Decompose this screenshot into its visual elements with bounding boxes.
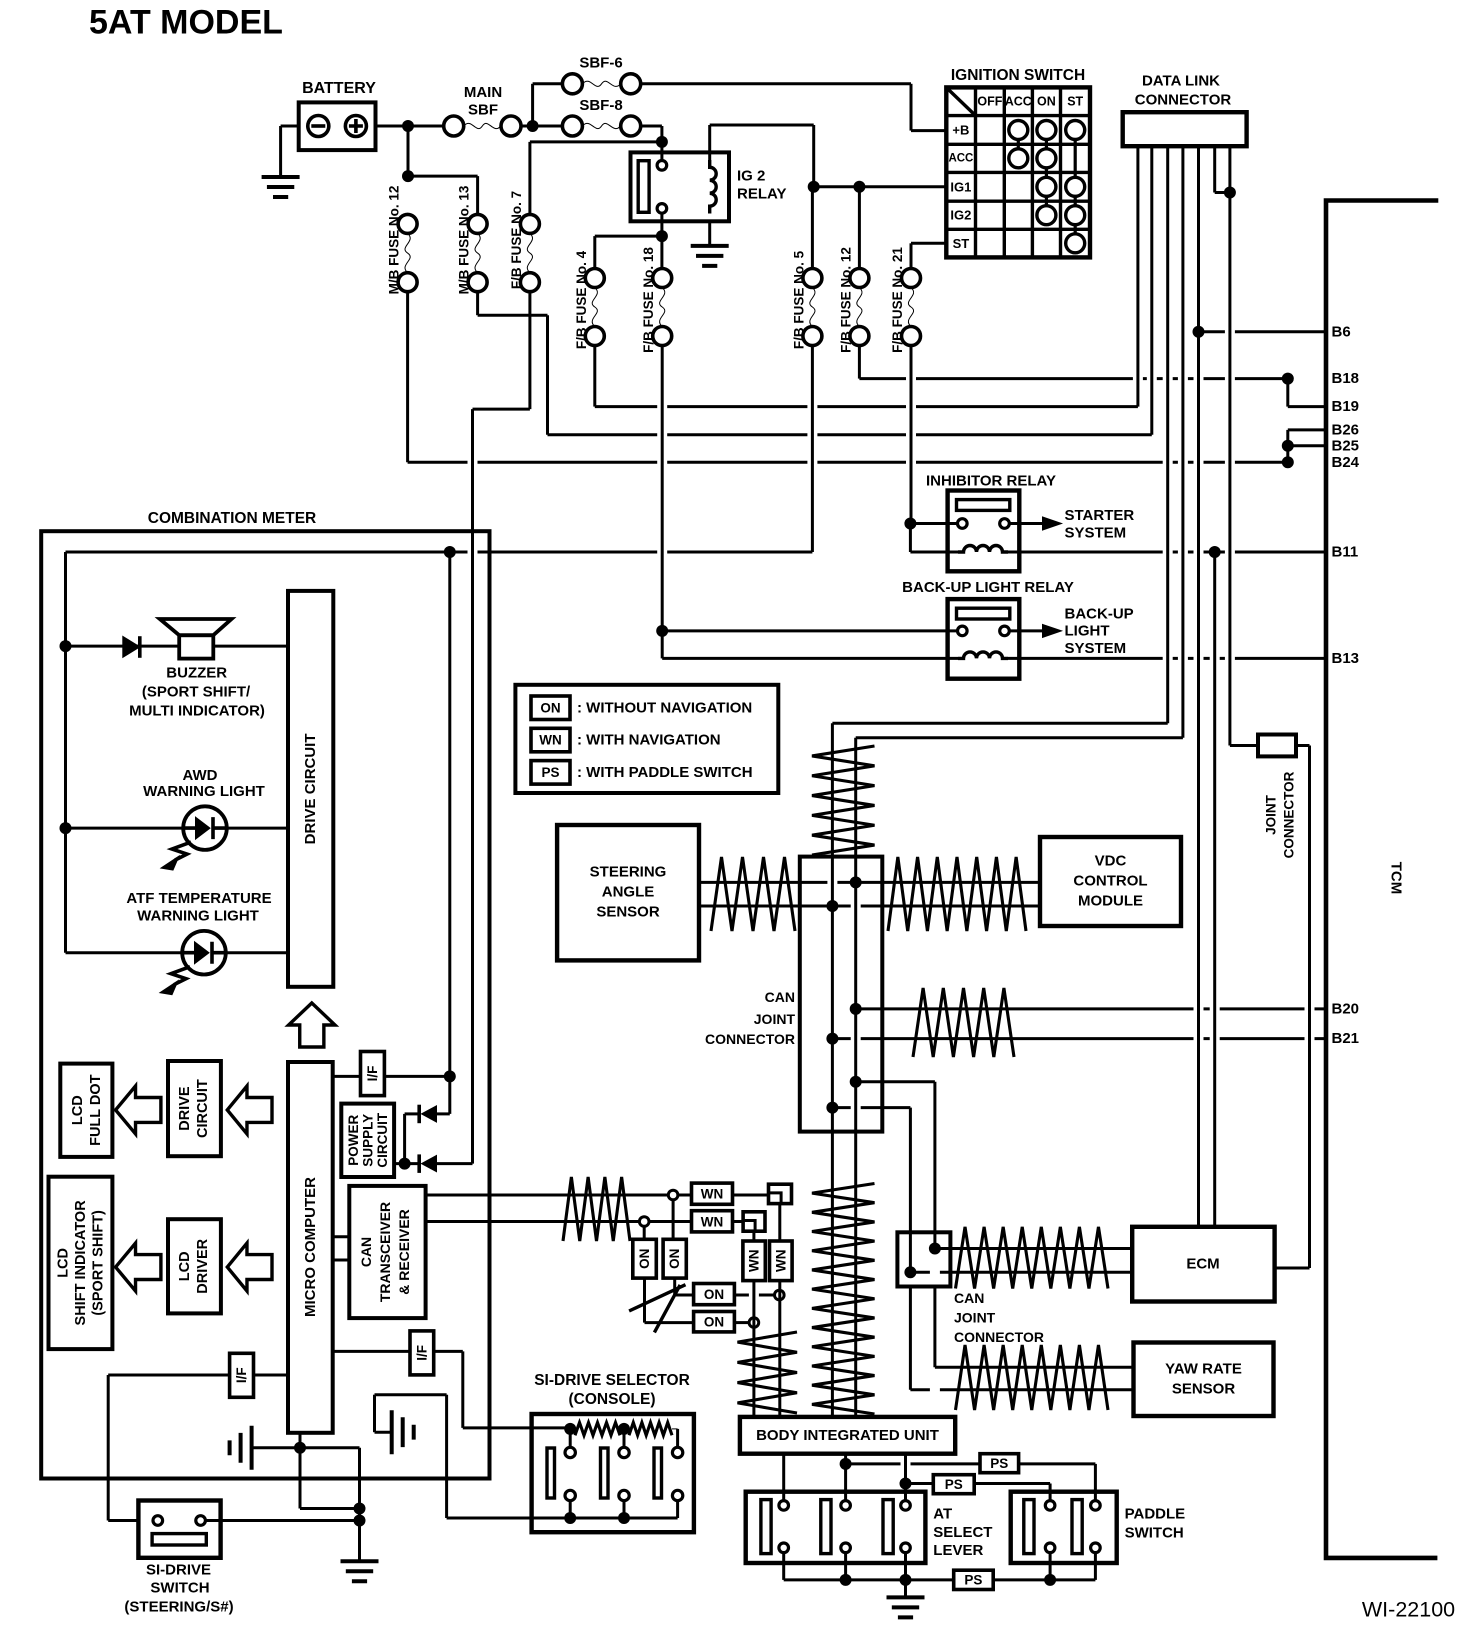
wires paddle to rail [1049, 1553, 1052, 1580]
wire circle L down to ON [643, 1226, 646, 1239]
svg-text:SWITCH: SWITCH [150, 1580, 209, 1597]
ground SI-drive selector [392, 1410, 414, 1454]
wire branch to M/B fuse No.13 [408, 175, 478, 178]
svg-text:IG1: IG1 [950, 179, 971, 194]
wire M/B fuse No.12 to TCM B24 [406, 292, 409, 463]
node rail 845 [840, 1574, 852, 1586]
circuit POWER SUPPLY CIRCUIT [341, 1104, 394, 1177]
option ON vertical left [633, 1239, 657, 1278]
node selector bottom 2 [618, 1512, 630, 1524]
node CAN H steering junction [850, 876, 862, 888]
wire B11 node down to ECM [1213, 552, 1216, 1227]
interface I/F top [361, 1052, 385, 1096]
buzzer BZ1 [179, 635, 213, 658]
wire fuse18 node [656, 625, 668, 637]
wire TCM B6 [1199, 330, 1327, 333]
svg-text:WN: WN [701, 1187, 724, 1202]
wire DLC pin4 [1181, 146, 1184, 738]
svg-text:SELECT: SELECT [933, 1524, 992, 1541]
wire battery positive bus [376, 125, 444, 128]
svg-text:(SPORT SHIFT/: (SPORT SHIFT/ [142, 684, 251, 701]
svg-text:PS: PS [945, 1477, 963, 1492]
svg-text:IG 2: IG 2 [737, 168, 765, 185]
diode power D2 [422, 1156, 437, 1172]
svg-text:B11: B11 [1332, 544, 1359, 561]
wire AT lever rail to ground [904, 1580, 907, 1598]
module VDC CONTROL MODULE [1040, 837, 1181, 926]
circuit DRIVE CIRCUIT small [168, 1061, 221, 1156]
display LCD SHIFT INDICATOR [49, 1177, 113, 1349]
twisted pair VDC [888, 857, 1026, 931]
wire selector bottom rail [447, 1517, 678, 1520]
wire buzzer branch [66, 645, 289, 648]
wire PS1 to paddle [1019, 1462, 1096, 1465]
svg-text:CONNECTOR: CONNECTOR [954, 1329, 1044, 1345]
wire backup contact to arrow [1009, 629, 1044, 632]
svg-text:ON: ON [704, 1287, 724, 1302]
wire PS line 1 [846, 1462, 980, 1465]
wire selector corner 3 [676, 1429, 679, 1448]
svg-text:F/B FUSE No. 18: F/B FUSE No. 18 [641, 247, 656, 353]
svg-text:JOINT: JOINT [754, 1011, 796, 1027]
connector circle ON4 [749, 1318, 759, 1328]
node SI-drive switch return B [354, 1515, 366, 1527]
fuse F/B FUSE No. 5 [803, 269, 822, 288]
svg-text:FULL DOT: FULL DOT [88, 1074, 104, 1146]
wire fuse No.13 to data link connector pin2 [548, 433, 1152, 436]
twisted pair steering sensor [711, 857, 795, 931]
svg-text:SWITCH: SWITCH [1125, 1525, 1184, 1542]
wire DLC pin4 to CAN bus L [856, 736, 1183, 739]
wire fuse18 to backup coil [661, 631, 664, 659]
svg-text:TCM: TCM [1388, 862, 1405, 895]
wire BIU to AT lever 2 [844, 1454, 847, 1501]
svg-text:LEVER: LEVER [933, 1542, 983, 1559]
connector circle H [668, 1190, 678, 1200]
relay IG2 coil wire to IG1 [708, 125, 711, 160]
wire ground node to SI-drive return [300, 1446, 360, 1449]
svg-text:ON: ON [667, 1249, 682, 1269]
option PS box 2 [933, 1475, 974, 1494]
wire up to SBF-6 [531, 84, 534, 126]
svg-text:B18: B18 [1332, 370, 1360, 387]
svg-text:CONNECTOR: CONNECTOR [1135, 92, 1232, 109]
connector DATA LINK CONNECTOR [1123, 112, 1247, 146]
svg-text:M/B FUSE No. 12: M/B FUSE No. 12 [387, 186, 402, 295]
ignition switch contact connector lines [1018, 140, 1075, 234]
battery B1 [299, 102, 376, 150]
interface I/F left [230, 1353, 254, 1397]
arrow drive circuit up [289, 1003, 335, 1047]
svg-text:MULTI INDICATOR): MULTI INDICATOR) [129, 703, 265, 720]
connector square H [769, 1184, 792, 1203]
svg-text:INHIBITOR RELAY: INHIBITOR RELAY [926, 473, 1056, 490]
node B11 branch to ECM [1209, 546, 1221, 558]
svg-text:WN: WN [773, 1250, 788, 1273]
wire steering sensor CAN H [699, 881, 856, 884]
ground micro computer [230, 1426, 252, 1470]
svg-text:SHIFT INDICATOR: SHIFT INDICATOR [73, 1200, 89, 1326]
svg-text:WN: WN [747, 1250, 762, 1273]
wire IG1 to F/B fuse No.5 [811, 187, 814, 269]
svg-text:B25: B25 [1332, 437, 1360, 454]
circuit DRIVE CIRCUIT [288, 591, 333, 987]
svg-text:MODULE: MODULE [1078, 893, 1143, 910]
wire SBF-8 to IG2 relay [641, 125, 662, 128]
option ON box4 [694, 1312, 735, 1332]
svg-text:CAN: CAN [765, 989, 795, 1005]
wire IG1 row [814, 185, 947, 188]
svg-text:WN: WN [539, 733, 562, 748]
svg-text:WI-22100: WI-22100 [1362, 1598, 1455, 1622]
svg-text:ECM: ECM [1186, 1256, 1219, 1273]
connector circle L [639, 1217, 649, 1227]
svg-text:BUZZER: BUZZER [166, 665, 227, 682]
svg-text:ON: ON [704, 1315, 724, 1330]
wire F/B fuse No.5 down to combination meter rail [811, 346, 814, 553]
twisted pair to yaw rate sensor [956, 1345, 1109, 1410]
svg-text:WN: WN [701, 1214, 724, 1229]
wire circle H down to ON [672, 1200, 675, 1240]
svg-text:SENSOR: SENSOR [596, 904, 660, 921]
svg-text:B26: B26 [1332, 421, 1360, 438]
svg-text:(SPORT SHIFT): (SPORT SHIFT) [91, 1210, 107, 1316]
LED ATF warning light [182, 931, 226, 975]
svg-text:LCD: LCD [56, 1248, 72, 1278]
switch SI-DRIVE SWITCH [138, 1501, 220, 1558]
fuse MAIN SBF [444, 116, 464, 136]
svg-text:ACC: ACC [948, 152, 973, 164]
wire micro to I/F left [254, 1374, 289, 1377]
node B18 junction [1282, 373, 1294, 385]
svg-text:CIRCUIT: CIRCUIT [195, 1079, 211, 1138]
svg-text:JOINT: JOINT [954, 1310, 996, 1326]
svg-text:LCD: LCD [70, 1095, 86, 1125]
connector circle ON3 [775, 1290, 785, 1300]
wire I/F right to SI-drive selector [434, 1350, 463, 1353]
svg-text:SYSTEM: SYSTEM [1065, 525, 1127, 542]
arrow to drive circuit small [227, 1086, 272, 1134]
wire F/B fuse No.7 down to power diode [471, 409, 474, 1164]
svg-text:I/F: I/F [234, 1367, 249, 1383]
ignition switch SW1 table [946, 87, 1090, 257]
node B24 junction [1282, 456, 1294, 468]
svg-text:ST: ST [1067, 95, 1083, 109]
arrow to starter system [1043, 517, 1062, 530]
relay IG 2 RELAY [631, 152, 730, 221]
selector contacts [569, 1429, 572, 1448]
svg-text:BACK-UP LIGHT RELAY: BACK-UP LIGHT RELAY [902, 579, 1074, 596]
svg-text:BACK-UP: BACK-UP [1065, 606, 1134, 623]
svg-text:B6: B6 [1332, 323, 1351, 340]
svg-text:F/B FUSE No. 4: F/B FUSE No. 4 [574, 250, 589, 349]
wire inhibitor coil to TCM B11 [1008, 551, 1326, 554]
arrow to LCD shift indicator [116, 1243, 161, 1291]
svg-text:F/B FUSE No. 5: F/B FUSE No. 5 [791, 250, 806, 349]
wire H to WN box [678, 1194, 692, 1197]
node CAN B21 junction [826, 1033, 838, 1045]
arrow to LCD driver [227, 1243, 272, 1291]
fuse F/B FUSE No. 7 [520, 214, 539, 233]
twisted pair above joint connector [812, 746, 875, 855]
node SBF-8 branch to fuse No.7 [656, 136, 668, 148]
svg-text:DRIVE CIRCUIT: DRIVE CIRCUIT [302, 733, 319, 844]
connector square L [743, 1212, 765, 1231]
unit BODY INTEGRATED UNIT [740, 1417, 955, 1454]
node PS line 1 [840, 1458, 852, 1470]
wire PS2 to paddle [974, 1482, 1050, 1485]
svg-text:ACC: ACC [1005, 95, 1032, 109]
wire steering sensor CAN L [699, 905, 832, 908]
svg-text:OFF: OFF [977, 95, 1002, 109]
wire F/B fuse No.12 to TCM B18 [858, 346, 861, 379]
option WN L [692, 1211, 733, 1232]
svg-text:5AT MODEL: 5AT MODEL [89, 4, 283, 42]
node micro ground junction [294, 1442, 306, 1454]
svg-text:COMBINATION METER: COMBINATION METER [148, 510, 316, 527]
svg-text:STARTER: STARTER [1065, 507, 1135, 524]
wire AWD branch [66, 827, 289, 830]
twisted pair transceiver [563, 1177, 630, 1241]
option PS box 1 [980, 1454, 1019, 1473]
svg-text:: WITHOUT NAVIGATION: : WITHOUT NAVIGATION [577, 699, 752, 716]
svg-text:B21: B21 [1332, 1030, 1360, 1047]
fuse F/B FUSE No. 18 [653, 269, 672, 288]
node rail 905 [900, 1574, 912, 1586]
wire joint conn2 to yaw upper [933, 1287, 936, 1368]
resistor selector R2 [629, 1423, 672, 1436]
svg-text:SBF: SBF [468, 102, 498, 119]
svg-text:& RECEIVER: & RECEIVER [396, 1209, 412, 1295]
wire SBF-6 to ignition +B [641, 82, 911, 85]
wire IG2 relay coil to ground [708, 221, 711, 246]
wire micro to I/F top [333, 1075, 361, 1078]
legend ON [531, 696, 570, 720]
transceiver CAN TRANSCEIVER & RECEIVER [349, 1186, 425, 1318]
svg-text:DATA LINK: DATA LINK [1142, 73, 1220, 90]
node CAN H branch [850, 1076, 862, 1088]
ground AT select lever [887, 1597, 925, 1617]
wire VDC CAN H [856, 881, 1040, 884]
wire CAN to TCM B20 [856, 1007, 1326, 1010]
wire DLC pin2 [1150, 146, 1153, 435]
wire joint conn2 to yaw lower [909, 1287, 912, 1390]
option WN vertical right [770, 1241, 793, 1281]
svg-text:CAN: CAN [358, 1237, 374, 1267]
node selector top 2 [618, 1423, 630, 1435]
wire joint connector to ECM [1296, 744, 1310, 747]
svg-text:F/B FUSE No. 12: F/B FUSE No. 12 [838, 247, 853, 353]
svg-text:F/B FUSE No. 7: F/B FUSE No. 7 [509, 191, 524, 289]
wire M/B fuse No.13 jog [476, 292, 479, 316]
fuse F/B FUSE No. 12 [850, 269, 869, 288]
node CAN L branch [826, 1102, 838, 1114]
wire micro to CAN transceiver lower [333, 1259, 350, 1262]
svg-text:SENSOR: SENSOR [1172, 1381, 1236, 1398]
arrow to back-up light system [1043, 624, 1062, 637]
wire bottom rail [784, 1578, 954, 1581]
svg-text:: WITH NAVIGATION: : WITH NAVIGATION [577, 732, 721, 749]
node CAN B20 junction [850, 1003, 862, 1015]
wire DLC pin1 [1136, 146, 1139, 406]
circuit LCD DRIVER [168, 1219, 221, 1313]
svg-text:VDC: VDC [1095, 853, 1127, 870]
arrow to LCD full dot [116, 1086, 161, 1134]
wire DLC pin6 merge [1213, 146, 1216, 192]
svg-text:M/B FUSE No. 13: M/B FUSE No. 13 [457, 185, 472, 294]
wire CAN H branch to joint conn 2 [856, 1080, 935, 1083]
fuse F/B FUSE No. 21 [902, 269, 921, 288]
sensor YAW RATE SENSOR [1134, 1343, 1274, 1417]
svg-text:BODY INTEGRATED UNIT: BODY INTEGRATED UNIT [756, 1427, 939, 1444]
wire DLC pin5 [1197, 146, 1200, 1227]
fuse SBF-6 [562, 74, 582, 94]
wire node down to inhibitor coil [909, 524, 912, 553]
svg-text:WARNING LIGHT: WARNING LIGHT [143, 783, 265, 800]
svg-text:BATTERY: BATTERY [302, 80, 376, 97]
svg-text:CONNECTOR: CONNECTOR [1282, 771, 1297, 858]
svg-text:STEERING: STEERING [590, 864, 667, 881]
svg-text:SYSTEM: SYSTEM [1065, 640, 1127, 657]
wire DLC pin3 to CAN bus H [832, 722, 1167, 725]
wire rail junction down [448, 552, 451, 1114]
svg-text:ATF TEMPERATURE: ATF TEMPERATURE [126, 890, 271, 907]
wire joint conn2 to ECM lower [910, 1271, 1132, 1274]
wire BIU to AT lever 1 [782, 1454, 785, 1501]
svg-text:I/F: I/F [414, 1345, 429, 1361]
wire SI-drive switch to return [205, 1519, 359, 1522]
connector CAN JOINT CONNECTOR 2 [897, 1232, 950, 1286]
fuse F/B FUSE No. 4 [585, 269, 604, 288]
svg-text:LCD: LCD [177, 1251, 193, 1281]
svg-text:POWER: POWER [346, 1115, 361, 1166]
svg-text:CIRCUIT: CIRCUIT [375, 1112, 390, 1167]
twisted pair CAN to BIU [812, 1184, 875, 1415]
node B6 junction [1193, 326, 1205, 338]
svg-text:ON: ON [637, 1249, 652, 1269]
legend WN [531, 728, 570, 752]
wire PS3 to paddle rail [993, 1578, 1095, 1581]
svg-text:SUPPLY: SUPPLY [361, 1114, 376, 1167]
sensor STEERING ANGLE SENSOR [557, 825, 699, 960]
wire ON right to ON box3 [673, 1278, 676, 1295]
resistor selector R1 [575, 1423, 620, 1436]
svg-text:WARNING LIGHT: WARNING LIGHT [137, 908, 259, 925]
module TCM box [1326, 201, 1438, 1558]
node PS line 2 [900, 1478, 912, 1490]
wire inhibitor contact to starter arrow [1009, 522, 1044, 525]
wire I/F left to SI-drive switch [108, 1374, 229, 1377]
node IG1 fuse junction [853, 181, 865, 193]
node DLC pin6-7 junction [1224, 187, 1236, 199]
wires AT lever to bottom rail [782, 1553, 785, 1580]
svg-text:SBF-8: SBF-8 [579, 97, 622, 114]
wire CAN transceiver H line [426, 1194, 669, 1197]
connector CAN JOINT CONNECTOR 1 [800, 857, 883, 1132]
wire CAN L branch to joint conn 2 [832, 1106, 910, 1109]
svg-text:ON: ON [1037, 95, 1056, 109]
wire CAN to TCM B21 [832, 1037, 1326, 1040]
wire F/B fuse No.4 to data link connector pin1 [593, 346, 596, 407]
svg-text:CONNECTOR: CONNECTOR [705, 1031, 795, 1047]
svg-text:PS: PS [541, 765, 559, 780]
svg-text:DRIVE: DRIVE [177, 1086, 193, 1131]
svg-text:MAIN: MAIN [464, 84, 502, 101]
node CAN L steering junction [826, 900, 838, 912]
wire PS line 2 [906, 1482, 934, 1485]
wire stub H to body integrated unit [778, 1281, 781, 1417]
svg-text:RELAY: RELAY [737, 186, 786, 203]
svg-text:B24: B24 [1332, 454, 1360, 471]
svg-text:B13: B13 [1332, 650, 1360, 667]
svg-text:CONTROL: CONTROL [1073, 873, 1147, 890]
svg-text:+B: +B [952, 123, 969, 138]
svg-text:DRIVER: DRIVER [195, 1238, 211, 1293]
svg-text:JOINT: JOINT [1264, 794, 1279, 835]
twisted pair stubs [738, 1332, 798, 1413]
wire battery negative to ground [281, 125, 299, 128]
legend PS [531, 761, 570, 785]
node inhibitor relay input [904, 518, 916, 530]
svg-text:AWD: AWD [183, 767, 218, 784]
node fuse branch [402, 170, 414, 182]
node selector bottom 1 [564, 1512, 576, 1524]
svg-text:SI-DRIVE: SI-DRIVE [146, 1562, 211, 1579]
wire TCM B26-B25-B24 link [1288, 428, 1326, 431]
switch AT SELECT LEVER [746, 1492, 926, 1563]
svg-text:B20: B20 [1332, 1000, 1360, 1017]
svg-text:MICRO COMPUTER: MICRO COMPUTER [302, 1177, 319, 1317]
node relay contact junction [656, 230, 668, 242]
node power diode junction [399, 1158, 411, 1170]
wire DLC pin7 to joint connector [1230, 744, 1258, 747]
svg-text:B19: B19 [1332, 398, 1360, 415]
wire micro to I/F right [333, 1350, 410, 1353]
wire ON box4 to circle [734, 1321, 749, 1324]
display LCD FULL DOT [60, 1064, 112, 1157]
svg-text:F/B FUSE No. 21: F/B FUSE No. 21 [890, 247, 905, 353]
interface I/F right [410, 1331, 434, 1375]
ground SI-drive return [341, 1561, 379, 1581]
svg-text:I/F: I/F [365, 1066, 380, 1082]
option WN H [692, 1183, 733, 1204]
wire BIU to AT lever 3 [904, 1454, 907, 1501]
wire WN to square H [733, 1194, 769, 1197]
option slash A [629, 1285, 685, 1311]
svg-text:IGNITION SWITCH: IGNITION SWITCH [951, 67, 1085, 84]
wire VDC CAN L [832, 905, 1040, 908]
fuse M/B FUSE No. 12 [398, 214, 417, 233]
wire backup coil to TCM B13 [1008, 657, 1326, 660]
wire stub square L down [752, 1231, 755, 1241]
connector JOINT CONNECTOR [1258, 735, 1296, 757]
option WN vertical left [743, 1241, 765, 1281]
node battery junction [402, 120, 414, 132]
wire WN to square L [733, 1220, 744, 1223]
legend box [515, 685, 778, 793]
node rail I/F junction [444, 546, 456, 558]
ignition switch contacts [1009, 121, 1028, 140]
wire DLC pin3 [1166, 146, 1169, 723]
wire junction down to fuse row [407, 126, 410, 176]
meter COMBINATION METER box [41, 531, 489, 1478]
twisted pair B20 B21 [913, 988, 1014, 1057]
option slash B [654, 1285, 680, 1333]
wire main SBF to SBF-8 [521, 125, 533, 128]
svg-text:YAW RATE: YAW RATE [1165, 1361, 1242, 1378]
wire branch to F/B fuse No.7 [530, 140, 662, 143]
node rail paddle [1044, 1574, 1056, 1586]
